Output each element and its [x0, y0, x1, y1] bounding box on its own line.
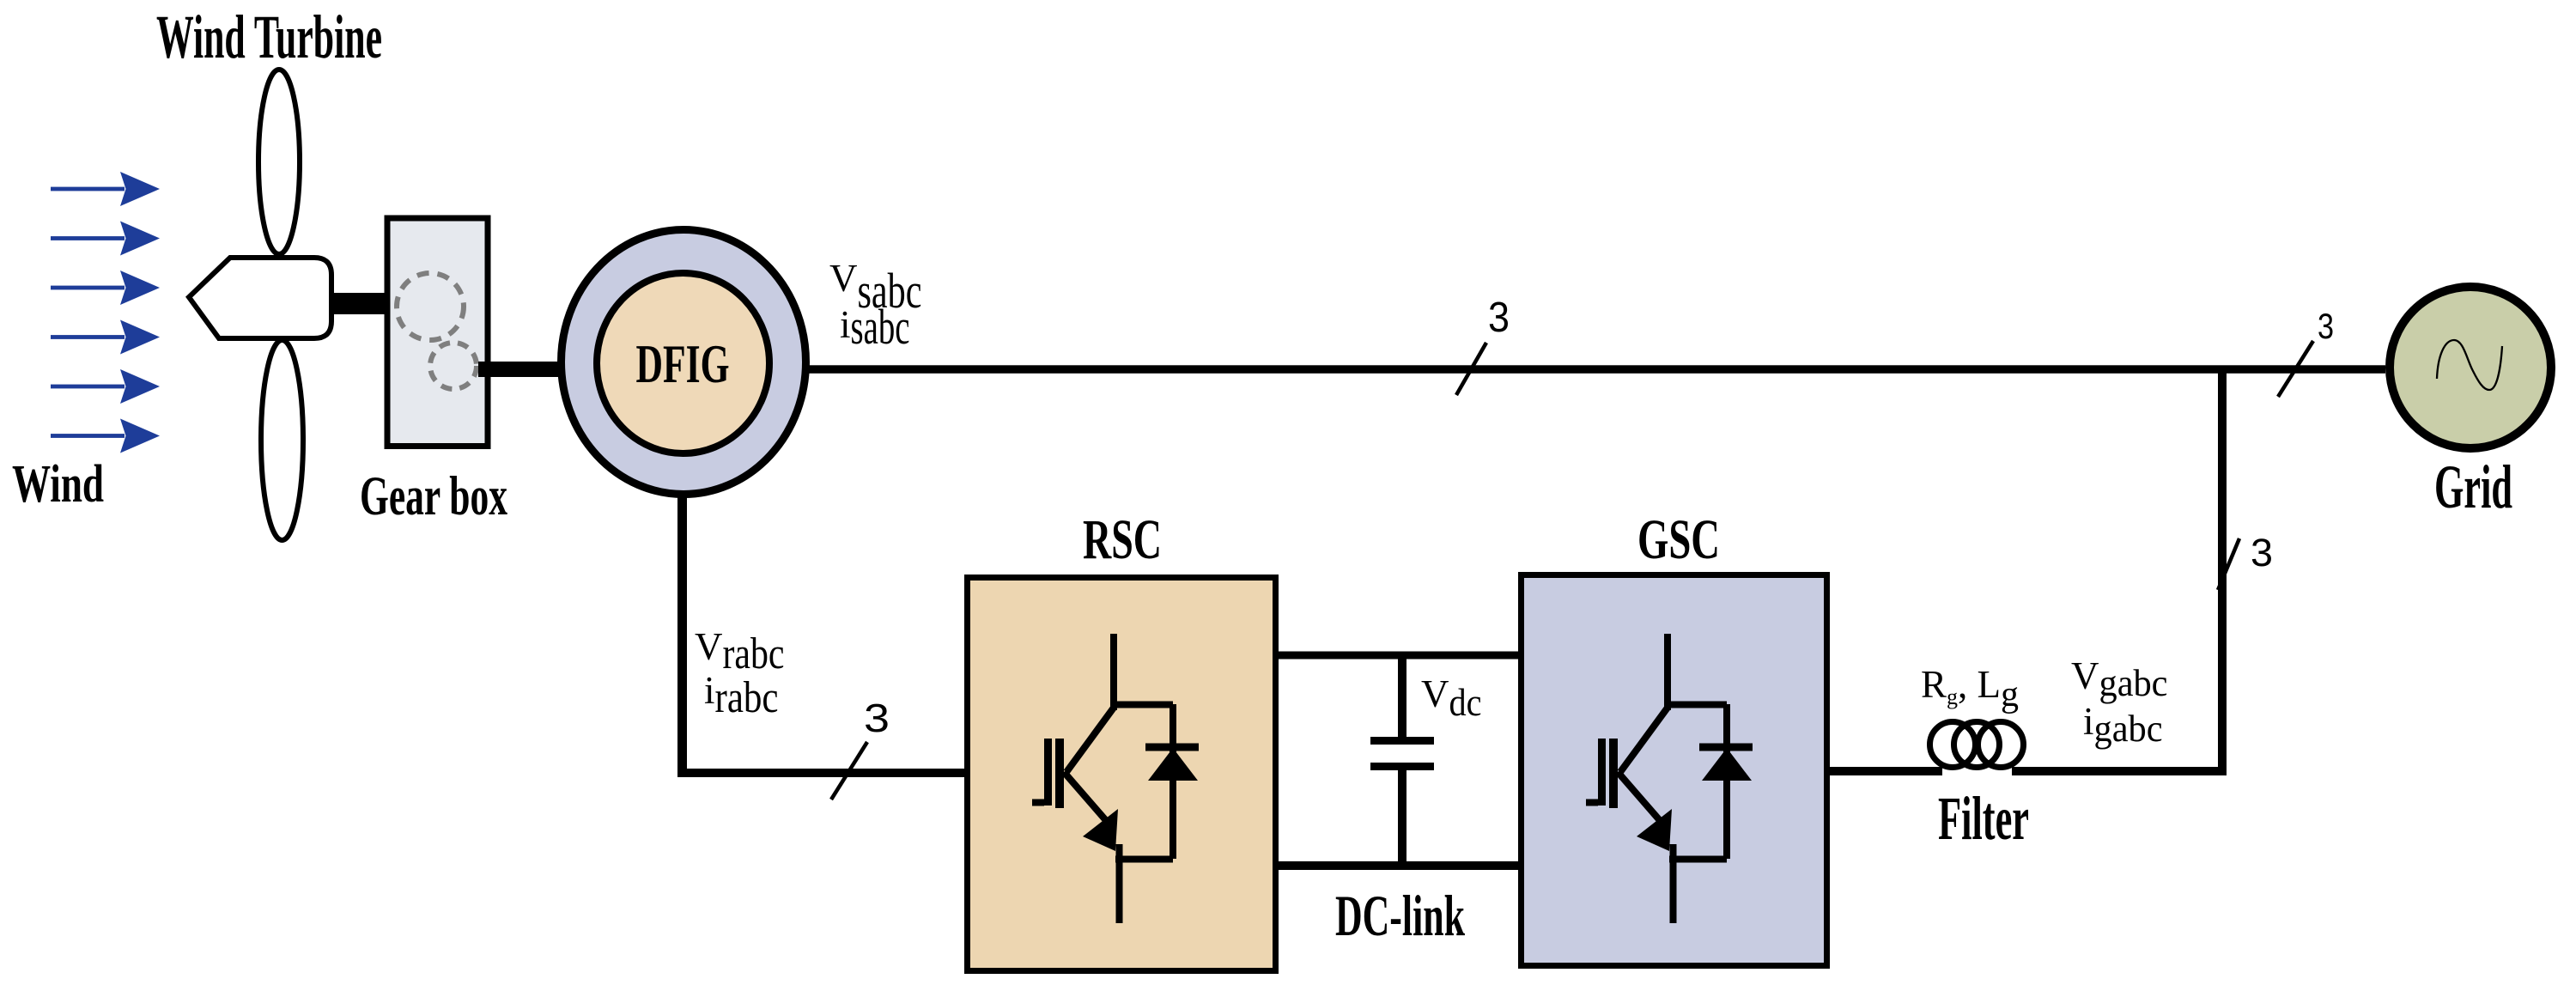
svg-text:Vgabc: Vgabc [2071, 654, 2168, 704]
svg-text:Gear box: Gear box [360, 465, 507, 527]
svg-text:RSC: RSC [1083, 508, 1162, 571]
svg-text:DFIG: DFIG [636, 334, 730, 394]
svg-text:isabc: isabc [840, 299, 910, 355]
svg-text:DC-link: DC-link [1335, 883, 1465, 948]
svg-text:3: 3 [1488, 295, 1510, 341]
svg-text:3: 3 [2251, 531, 2273, 575]
svg-text:3: 3 [864, 696, 890, 740]
svg-text:Wind: Wind [12, 455, 104, 514]
svg-text:igabc: igabc [2083, 700, 2163, 750]
svg-text:Grid: Grid [2434, 453, 2512, 521]
svg-text:irabc: irabc [704, 669, 779, 722]
svg-text:Wind Turbine: Wind Turbine [156, 3, 382, 71]
svg-text:GSC: GSC [1637, 508, 1720, 571]
svg-text:Filter: Filter [1938, 784, 2029, 853]
svg-text:3: 3 [2318, 306, 2334, 346]
